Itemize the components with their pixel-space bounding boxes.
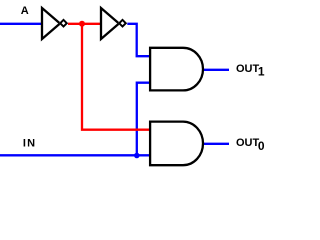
svg-text:1: 1 (258, 65, 265, 79)
svg-text:0: 0 (258, 139, 265, 153)
svg-text:OUT: OUT (236, 137, 260, 149)
svg-text:OUT: OUT (236, 63, 260, 75)
svg-text:IN: IN (23, 138, 36, 150)
svg-text:A: A (21, 5, 29, 17)
